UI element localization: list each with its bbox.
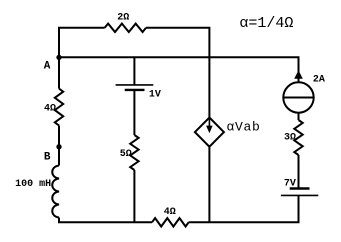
resistor R 2ohm (top) [105,24,146,32]
resistor R 5ohm (middle) [130,135,138,170]
svg-text:2Ω: 2Ω [117,12,129,23]
svg-text:7V: 7V [284,178,296,189]
svg-text:B: B [44,152,51,164]
svg-text:2A: 2A [313,74,325,85]
node A junction dot [56,55,61,60]
battery V 7V bottom plate long [281,194,318,196]
wire bottom right segment and right rail up from battery [189,195,299,222]
dependent source arrow head [206,126,213,134]
node B junction dot [56,144,61,149]
current source I 2A circle [283,82,313,112]
wire middle rail 5ohm to bottom [133,170,135,222]
svg-text:100 mH: 100 mH [15,179,51,190]
resistor R 4ohm (left) [55,89,63,126]
wire left rail from A down to 4ohm [58,57,60,88]
svg-text:α=1/4Ω: α=1/4Ω [239,15,293,32]
wire right rail 3ohm to battery [298,155,300,189]
wire middle rail from A-wire to battery [133,57,135,85]
wire top horizontal right of resistor, down to A-wire [146,28,209,58]
svg-text:αVab: αVab [227,119,261,134]
battery V 1V bottom plate short [125,89,145,91]
wire dependent-source rail from top wire down to diamond [208,57,210,118]
svg-text:A: A [44,61,51,73]
current source horizontal bar [283,97,313,99]
svg-text:5Ω: 5Ω [120,149,132,160]
wire inductor to bottom-left corner and bottom segment [59,218,152,223]
wire left rail 4ohm to inductor [58,126,60,166]
wire middle rail battery to 5ohm [133,90,135,135]
dependent source aVab diamond [195,118,224,147]
battery V 7V top plate short [290,187,310,189]
svg-text:4Ω: 4Ω [44,103,56,114]
svg-text:3Ω: 3Ω [284,133,296,144]
resistor R 4ohm (bottom) [152,218,189,226]
wire dependent-source rail diamond to bottom [208,147,210,223]
svg-text:1V: 1V [149,90,161,101]
current source arrow head (up) [294,70,303,79]
wire top left vertical and top horizontal to resistor [59,28,105,58]
inductor L 100mH [52,166,59,218]
wire node A horizontal rail and right rail down to current source [59,57,299,82]
wire right rail current source to 3ohm [298,113,300,120]
svg-text:4Ω: 4Ω [164,207,176,218]
dependent source arrow shaft [208,119,210,127]
battery V 1V top plate long [116,84,154,86]
resistor R 3ohm (right) [294,120,302,155]
